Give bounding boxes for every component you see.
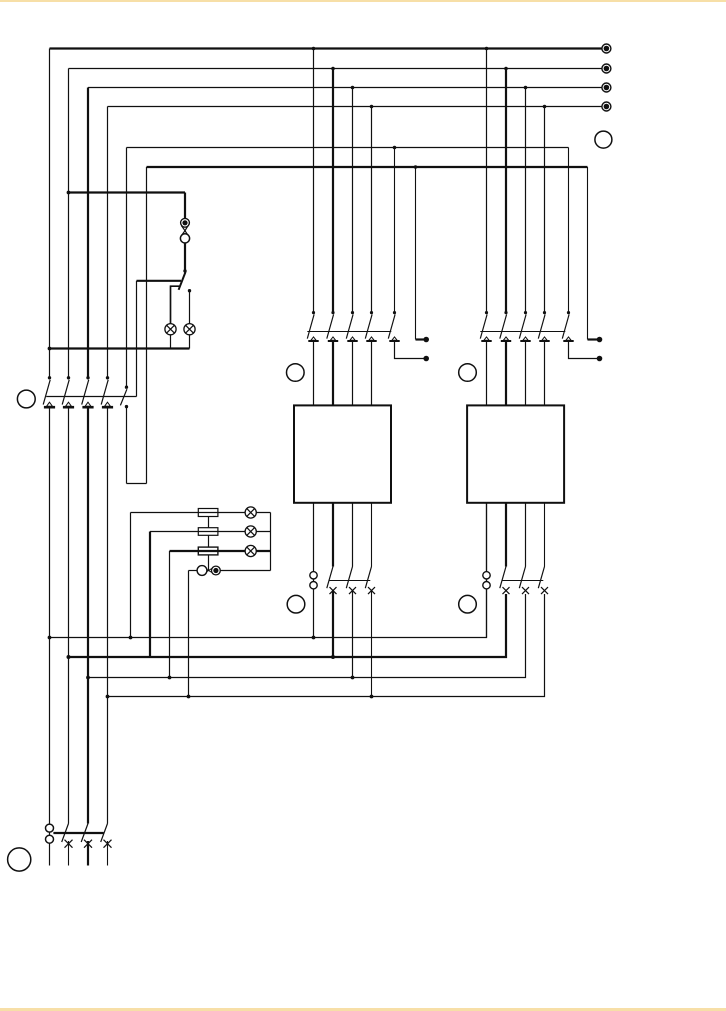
wire Q3 pole 5 drop: [568, 148, 570, 313]
switch Q1 pole 1 pivot: [48, 376, 51, 379]
wire phase 4 vertical drop: [107, 107, 109, 378]
breaker Q2 pole 2 blade: [327, 567, 333, 589]
switch Q2 pole 1 contact triangle: [311, 337, 316, 340]
breaker outgoing pole 3 cross: [84, 840, 92, 848]
wire throw-A drop to linkage: [136, 281, 138, 397]
wire Q2 out 2 upper: [332, 503, 334, 567]
switch Q2 pole 3 contact triangle: [350, 337, 355, 340]
switch Q3 pole 5 pivot: [567, 311, 570, 314]
terminal Q3 aux: [597, 337, 603, 343]
wire Q3 pole 5 jog: [569, 342, 598, 359]
wire Q2 pole 3 to box: [352, 342, 354, 405]
wire riser 2 to outgoing breaker: [68, 408, 70, 823]
label balloon Q3 top: [459, 364, 477, 382]
junction Q3 tap 3: [524, 86, 528, 90]
switch Q3 pole 1 contact bar: [481, 340, 491, 342]
switch Q3 pole 3 contact bar: [520, 340, 530, 342]
terminal Q3 pole 5: [597, 356, 603, 362]
switch Q3 pole 2 contact bar: [501, 340, 511, 342]
switch Q3 pole 1 blade: [480, 314, 487, 338]
breaker outgoing pole 2 cross: [65, 840, 73, 848]
breaker outgoing linkage: [53, 832, 103, 834]
neutral link outgoing: [46, 824, 54, 832]
lamp H2: [184, 324, 195, 335]
label balloon Q2 bottom: [287, 595, 305, 613]
wire Q3 out 2 upper: [505, 503, 507, 567]
fuse F3: [198, 547, 218, 555]
wire Q2 pole 1 to box: [313, 342, 315, 405]
breaker Q3 pole 4 cross: [541, 587, 548, 594]
switch Q1 pole 4 contact bar: [102, 406, 113, 409]
wire feeder L5 horizontal: [127, 147, 569, 149]
footer band: [0, 1008, 726, 1011]
switch Q3 pole 5 contact bar: [563, 340, 573, 342]
switch Q3 pole 4 blade: [538, 314, 545, 338]
breaker Q2 linkage: [330, 580, 371, 582]
wire control drop to fuse F0: [184, 193, 186, 219]
fuse F2: [198, 528, 218, 536]
switch Q2 pole 3 blade: [346, 314, 353, 338]
wire Q3 pole 1 to box: [486, 342, 488, 405]
switch Q1 pole 5 pivot: [125, 386, 128, 389]
switch Q2 pole 5 blade: [388, 314, 395, 338]
terminal X1:1: [602, 44, 611, 53]
wire fuse chain a: [208, 517, 210, 528]
terminal X1:3: [602, 83, 611, 92]
switch Q2 linkage line: [307, 331, 391, 333]
switch Q3 pole 5 blade: [562, 314, 569, 338]
switch Q2 pole 4 contact bar: [366, 340, 376, 342]
wire lamp H1 lead: [170, 335, 172, 349]
wire Q2 pole 1 drop: [313, 49, 315, 313]
switch Q1 pole 4 contact triangle: [105, 402, 111, 406]
neutral link Q3: [483, 572, 490, 579]
wire lamp line A: [131, 512, 271, 514]
switch Q1 pole 4 pivot: [106, 376, 109, 379]
neutral link Q2: [310, 572, 317, 579]
junction Q3 tap 1: [485, 47, 489, 51]
wire Q2 pole 5 jog: [395, 342, 425, 359]
switch Q1 pole 4 blade: [101, 380, 108, 405]
fuse-switch F0 bowtie: [182, 227, 187, 231]
wire collector L2: [88, 594, 526, 678]
switch Q1 pole 2 contact bar: [63, 406, 74, 409]
wire control tap horizontal: [69, 191, 186, 193]
wire Q2 out 4 upper: [371, 503, 373, 567]
wire Q2 pole 2 drop: [332, 69, 334, 313]
wire lamp line C drop: [169, 551, 171, 678]
wire pole 5 bottom jog: [127, 483, 147, 485]
fuse-switch F0 bottom terminal: [180, 234, 189, 243]
switch Q1 pole 5 contact dot: [125, 405, 128, 408]
breaker outgoing pole 3 blade: [81, 824, 88, 843]
switch Q2 pole 1 blade: [307, 314, 314, 338]
wire phase 3 vertical drop: [87, 88, 89, 378]
wire Q2 aux to terminal: [416, 338, 424, 340]
changeover switch S1 blade: [179, 272, 186, 290]
wire feeder L6 horizontal: [147, 166, 588, 168]
switch Q2 pole 5 contact triangle: [392, 337, 397, 340]
wire Q2 pole 4 to box: [371, 342, 373, 405]
wire L5 drop to pole 5: [126, 148, 128, 388]
wire collector N: [50, 503, 487, 638]
breaker Q2 pole 2 cross: [330, 587, 337, 594]
wire lamp line B: [150, 531, 271, 533]
wire lamp line C: [170, 550, 271, 552]
lamp H5: [245, 545, 256, 556]
switch Q1 pole 3 blade: [82, 380, 89, 405]
label balloon outgoing feeder: [8, 848, 31, 871]
changeover contact C dot: [188, 289, 191, 292]
wire Q3 out 3 upper: [525, 503, 527, 567]
junction collector L2 dots: [86, 676, 90, 680]
breaker Q2 pole 4 cross: [368, 587, 375, 594]
terminal X1:2: [602, 64, 611, 73]
wire contact C to lamp H2: [189, 291, 191, 324]
wire outgoing pole 4 tail: [107, 841, 109, 866]
wire pole 5 down: [126, 407, 128, 484]
wire collector L3: [108, 594, 545, 697]
wire bottom line drop: [188, 571, 190, 697]
switch Q1 pole 5 blade: [120, 389, 127, 405]
terminal Q2 pole 5: [423, 356, 429, 362]
junction collector L3 dots: [106, 695, 110, 699]
wire Q3 pole 3 drop: [525, 88, 527, 313]
junction Q3 tap 4: [543, 105, 547, 109]
label balloon Q2 top: [287, 364, 305, 382]
wire Q2 out 4 lower: [371, 591, 373, 697]
lamp H4: [245, 526, 256, 537]
breaker Q2 pole 3 blade: [346, 567, 352, 589]
lamp H1: [165, 324, 176, 335]
switch Q1 pole 3 pivot: [86, 376, 89, 379]
junction control tap: [67, 191, 71, 195]
wire Q3 aux drop: [587, 167, 589, 340]
fuse-switch F4 bowtie: [204, 568, 209, 574]
switch Q3 pole 2 pivot: [504, 311, 507, 314]
switch Q3 linkage line: [480, 331, 565, 333]
wire Q2 aux drop: [415, 167, 417, 340]
wire Q2 out 1: [313, 503, 315, 638]
switch Q2 pole 2 pivot: [331, 311, 334, 314]
wire lamp return bus: [270, 513, 272, 571]
switch Q2 pole 2 blade: [327, 314, 334, 338]
switch Q3 pole 1 contact triangle: [484, 337, 489, 340]
wire outgoing pole 2 tail: [68, 841, 70, 866]
switch Q1 pole 3 contact triangle: [85, 402, 91, 406]
junction Q2 tap 2: [331, 67, 335, 71]
label balloon Q3 bottom: [459, 595, 477, 613]
switch Q3 pole 1 pivot: [485, 311, 488, 314]
junction Q3 tap 2: [504, 67, 508, 71]
fuse-switch F4 open terminal: [197, 566, 207, 576]
wire S1 throw-A horizontal: [137, 280, 182, 282]
breaker outgoing pole 2 blade: [62, 824, 69, 843]
wire F0 to changeover switch: [184, 243, 186, 271]
switch Q2 pole 5 contact bar: [389, 340, 399, 342]
wire Q2 pole 4 drop: [371, 107, 373, 313]
wire feeder L1 horizontal: [50, 47, 602, 49]
wire Q3 aux to terminal: [588, 338, 598, 340]
switch Q3 pole 5 contact triangle: [566, 337, 571, 340]
wire feeder L3 horizontal: [88, 87, 602, 89]
wire Q3 pole 4 drop: [544, 107, 546, 313]
wire Q2 pole 2 to box: [332, 342, 334, 405]
switch Q1 pole 1 blade: [43, 380, 50, 405]
wire Q2 out 2 lower: [332, 591, 334, 657]
switch Q2 pole 3 contact bar: [347, 340, 357, 342]
wire L6 drop: [146, 167, 148, 484]
junction collector N dots: [48, 636, 52, 640]
wire bottom line to fuse-switch: [189, 570, 198, 572]
switch Q2 pole 5 pivot: [393, 311, 396, 314]
switch Q3 pole 3 contact triangle: [523, 337, 528, 340]
switch Q1 pole 3 contact bar: [82, 406, 93, 409]
wire Q2 pole 3 drop: [352, 88, 354, 313]
switch Q3 pole 4 pivot: [543, 311, 546, 314]
wire throw-B vertical: [170, 286, 172, 323]
wire Q2 pole 5 drop: [394, 148, 396, 313]
lamp H3: [245, 507, 256, 518]
device box Q3: [467, 405, 564, 502]
switch Q1 pole 2 pivot: [67, 376, 70, 379]
junction Q2 tap 4: [370, 105, 374, 109]
junction Q2 tap 5: [393, 146, 397, 150]
fuse F1: [198, 509, 218, 517]
switch Q3 pole 2 contact triangle: [503, 337, 508, 340]
wire outgoing neutral tail: [49, 843, 51, 865]
wire Q3 pole 1 drop: [486, 49, 488, 313]
switch Q2 pole 1 contact bar: [308, 340, 318, 342]
wire S1 throw-B bracket: [171, 286, 180, 323]
wire feeder L2 horizontal: [69, 68, 602, 70]
breaker Q3 pole 4 blade: [538, 567, 544, 589]
wire riser 3 to outgoing breaker: [87, 408, 89, 823]
wire lamp line A drop: [130, 513, 132, 638]
label balloon terminals: [595, 131, 612, 148]
switch Q1 linkage line: [46, 396, 136, 398]
wire phase 2 vertical drop: [68, 69, 70, 378]
breaker outgoing pole 4 cross: [104, 840, 112, 848]
wire Q3 pole 4 to box: [544, 342, 546, 405]
switch Q1 pole 2 blade: [62, 380, 69, 405]
wire Q2 out 3 upper: [352, 503, 354, 567]
switch Q2 pole 3 pivot: [351, 311, 354, 314]
header band: [0, 0, 726, 2]
wire riser 1 to outgoing breaker: [49, 408, 51, 843]
wire fuse chain c: [208, 555, 210, 571]
breaker Q3 pole 3 cross: [522, 587, 529, 594]
wire Q2 out 3 lower: [352, 591, 354, 678]
changeover switch S1 pivot: [183, 269, 186, 272]
junction Q2 tap 1: [312, 47, 316, 51]
wire lamp H2 lead: [189, 335, 191, 349]
switch Q2 pole 2 contact bar: [328, 340, 338, 342]
wire fuse chain b: [208, 535, 210, 547]
switch Q3 pole 4 contact triangle: [542, 337, 547, 340]
breaker Q3 pole 2 blade: [500, 567, 506, 589]
switch Q2 pole 4 contact triangle: [369, 337, 374, 340]
wire feeder L4 horizontal: [108, 106, 602, 108]
switch Q1 pole 2 contact triangle: [66, 402, 72, 406]
wire Q3 pole 2 to box: [505, 342, 507, 405]
switch Q2 pole 2 contact triangle: [330, 337, 335, 340]
fuse-switch F4 filled terminal: [212, 566, 221, 575]
switch Q3 pole 3 blade: [519, 314, 526, 338]
switch Q1 pole 1 contact triangle: [47, 402, 53, 406]
breaker Q3 pole 3 blade: [519, 567, 525, 589]
wire phase 1 vertical drop: [49, 49, 51, 378]
breaker Q3 linkage: [503, 580, 544, 582]
fuse-switch F0 top terminal: [181, 218, 190, 227]
wire lamp line B drop: [149, 532, 151, 658]
junction Q2 tap 3: [351, 86, 355, 90]
switch Q2 pole 4 pivot: [370, 311, 373, 314]
junction Q2 aux tap: [414, 165, 418, 169]
switch Q2 pole 4 blade: [365, 314, 372, 338]
wire Q3 out 4 upper: [544, 503, 546, 567]
wire Q3 out 1: [486, 503, 488, 638]
breaker Q2 pole 4 blade: [365, 567, 371, 589]
wire Q3 pole 3 to box: [525, 342, 527, 405]
switch Q2 pole 1 pivot: [312, 311, 315, 314]
junction collector L1 dots: [67, 655, 71, 659]
terminal Q2 aux: [423, 337, 429, 343]
device box Q2: [294, 405, 391, 502]
junction bus left end: [48, 347, 52, 351]
breaker Q3 pole 2 cross: [503, 587, 510, 594]
switch Q3 pole 3 pivot: [524, 311, 527, 314]
wire outgoing pole 3 tail: [87, 841, 89, 866]
switch Q3 pole 4 contact bar: [539, 340, 549, 342]
breaker Q2 pole 3 cross: [349, 587, 356, 594]
terminal X1:4: [602, 102, 611, 111]
label balloon main switch: [17, 390, 35, 408]
wire neutral bus: [50, 347, 190, 349]
wire lamp bottom line: [220, 570, 270, 572]
wire riser 4 to outgoing breaker: [107, 408, 109, 823]
wire collector L1: [69, 594, 507, 657]
breaker outgoing pole 4 blade: [101, 824, 108, 843]
switch Q1 pole 1 contact bar: [44, 406, 55, 409]
wire Q3 pole 2 drop: [505, 69, 507, 313]
switch Q3 pole 2 blade: [500, 314, 507, 338]
